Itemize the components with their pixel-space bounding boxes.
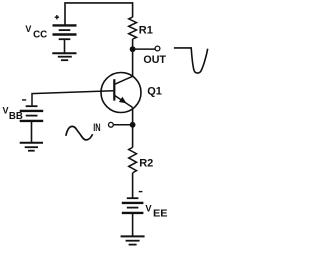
battery V_EE <box>122 198 144 213</box>
svg-text:V: V <box>145 203 152 213</box>
label V_EE <box>145 203 167 219</box>
transistor Q1 emitter arrow <box>119 97 127 104</box>
transistor Q1 emitter lead <box>114 95 132 107</box>
wire base to V_BB <box>32 91 113 106</box>
transistor Q1 base bar <box>113 79 115 100</box>
ground under V_CC <box>52 53 76 60</box>
wire node to OUT terminal <box>133 48 155 50</box>
node OUT junction dot <box>130 46 136 52</box>
svg-text:R1: R1 <box>139 25 153 37</box>
wire emitter to node IN <box>132 107 134 124</box>
svg-text:R2: R2 <box>139 158 153 170</box>
minus label for V_EE <box>139 191 143 193</box>
resistor R1 <box>129 17 137 39</box>
label V_BB <box>3 106 23 123</box>
resistor R2 <box>129 147 137 172</box>
ground under V_BB <box>20 143 43 151</box>
svg-text:V: V <box>25 24 31 34</box>
svg-text:CC: CC <box>33 29 47 40</box>
wire battery V_BB to ground <box>31 122 33 143</box>
minus label for V_BB <box>22 99 26 101</box>
wire battery V_CC to ground <box>64 40 66 53</box>
transistor Q1 circle <box>101 73 141 113</box>
plus label for V_CC <box>55 15 59 19</box>
wire V_CC top to R1 <box>65 3 133 26</box>
svg-text:IN: IN <box>93 122 100 134</box>
wire node OUT to collector <box>132 49 134 76</box>
battery V_CC <box>53 25 77 39</box>
input sine symbol <box>66 126 93 140</box>
svg-text:Q1: Q1 <box>147 86 162 98</box>
ground under V_EE <box>121 236 145 244</box>
battery V_BB <box>20 106 44 121</box>
svg-text:EE: EE <box>153 209 168 220</box>
wire node IN to R2 <box>132 125 134 148</box>
node IN junction dot <box>130 122 136 128</box>
output waveform <box>174 48 208 73</box>
wire IN terminal to node <box>113 124 130 126</box>
wire R1 to node OUT <box>132 39 134 49</box>
transistor Q1 collector lead <box>114 76 133 84</box>
wire battery V_EE to ground <box>132 214 134 237</box>
OUT terminal circle <box>155 46 160 51</box>
svg-text:V: V <box>3 106 9 116</box>
wire R2 to battery V_EE <box>132 173 134 198</box>
label V_CC <box>25 24 47 41</box>
IN terminal circle <box>109 122 114 127</box>
svg-text:BB: BB <box>9 111 23 122</box>
svg-text:OUT: OUT <box>143 54 166 66</box>
